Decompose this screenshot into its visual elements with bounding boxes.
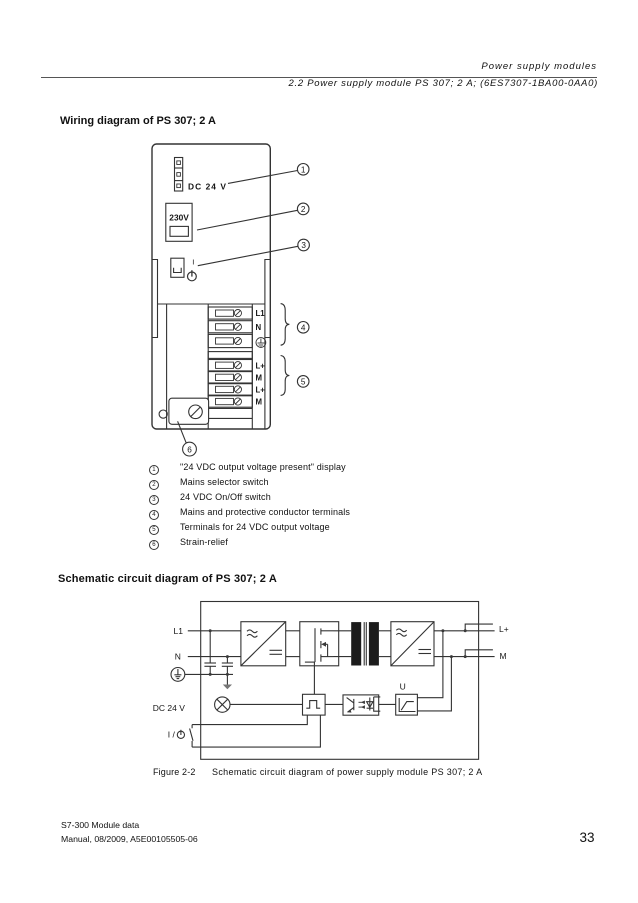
PE label symbol	[256, 338, 266, 348]
svg-text:L1: L1	[256, 309, 266, 318]
svg-text:L+: L+	[256, 361, 266, 370]
wire lamp to pulse stage	[230, 703, 303, 705]
schematic labels	[153, 624, 509, 739]
terminal L+	[465, 624, 493, 631]
svg-text:U: U	[400, 682, 406, 692]
schematic frame	[201, 602, 479, 760]
pulse stage box	[303, 694, 326, 715]
terminal row M	[208, 372, 252, 383]
svg-text:M: M	[500, 651, 507, 661]
callout circles	[183, 164, 310, 457]
wire PE	[185, 673, 233, 675]
svg-text:L+: L+	[256, 386, 266, 395]
svg-text:5: 5	[301, 377, 306, 386]
svg-text:N: N	[256, 323, 262, 332]
terminal row N	[208, 321, 252, 333]
svg-text:I: I	[192, 257, 194, 266]
optocoupler box	[343, 695, 380, 715]
section heading 2	[58, 573, 277, 585]
svg-text:230V: 230V	[169, 212, 189, 222]
empty separator row	[208, 352, 252, 359]
svg-text:M: M	[256, 373, 263, 382]
svg-text:L+: L+	[499, 624, 509, 634]
wire M output	[434, 656, 495, 658]
footer	[61, 820, 139, 830]
legend	[149, 460, 350, 550]
output rectifier U2	[391, 622, 434, 666]
wire L1 input	[188, 630, 241, 632]
module body outline	[152, 144, 270, 429]
svg-text:4: 4	[301, 323, 306, 332]
svg-text:M: M	[256, 398, 263, 407]
terminal row L1	[208, 307, 252, 319]
on/off switch box	[171, 258, 184, 277]
power glyph in I/O label	[177, 730, 184, 739]
terminal block bottom band	[208, 407, 252, 409]
wire optocoupler to U monitor	[379, 703, 396, 705]
svg-text:DC 24 V: DC 24 V	[153, 703, 185, 713]
brace 4	[281, 304, 290, 346]
header line 2	[289, 78, 598, 89]
page number	[579, 830, 594, 845]
svg-text:DC 24 V: DC 24 V	[188, 181, 227, 191]
feedback wire from M	[417, 657, 451, 711]
lamp DC24V	[215, 697, 230, 712]
schematic circuit diagram figure 2-2	[145, 595, 520, 765]
wires transformer to U2	[379, 630, 391, 632]
switch blade	[190, 729, 193, 741]
wire L+ output	[434, 630, 495, 632]
wiring diagram of PS 307	[140, 135, 325, 465]
brace 5	[281, 356, 290, 396]
transformer T1	[351, 622, 379, 665]
label column edge	[264, 338, 266, 429]
junction dots output	[441, 629, 466, 658]
capacitor C2	[222, 657, 233, 685]
figure caption	[153, 767, 196, 777]
svg-text:1: 1	[301, 165, 306, 174]
header line 1	[481, 61, 597, 72]
terminal row PE	[208, 334, 252, 347]
capacitor C1	[204, 631, 216, 675]
selector slot	[170, 226, 188, 236]
front panel divider	[158, 303, 265, 305]
right rail notch	[265, 260, 270, 338]
wire pulse to optocoupler	[325, 703, 343, 705]
wire N input	[188, 656, 241, 658]
svg-text:6: 6	[187, 445, 192, 454]
switch slot	[174, 268, 182, 273]
callout line 1	[228, 171, 298, 184]
voltage monitor box U	[396, 694, 418, 715]
power symbol	[188, 272, 197, 281]
terminal row L+ 2	[208, 384, 252, 395]
svg-text:I /: I /	[168, 729, 176, 739]
chassis ground arrow	[223, 685, 232, 690]
terminal labels	[256, 309, 266, 406]
callout line 3	[198, 246, 298, 265]
terminal row M 2	[208, 396, 252, 407]
LED strip	[175, 158, 183, 192]
feedback wire from L+	[417, 631, 443, 698]
svg-text:L1: L1	[174, 626, 184, 636]
terminal M	[465, 650, 493, 657]
svg-text:2: 2	[301, 205, 306, 214]
svg-text:N: N	[175, 652, 181, 662]
lower front panel left edge	[166, 304, 168, 429]
svg-text:3: 3	[301, 241, 306, 250]
rectifier U1	[241, 622, 286, 666]
ground symbol	[171, 668, 185, 682]
on/off switch wires	[192, 715, 307, 728]
header rule	[41, 77, 597, 78]
strain relief box	[169, 398, 209, 424]
bottom-left hole	[159, 410, 167, 418]
wires Q1 to transformer	[334, 630, 352, 632]
terminal row L+	[208, 360, 252, 371]
callout line 2	[197, 210, 298, 230]
strain relief screw	[189, 405, 203, 419]
section heading 1	[60, 115, 216, 127]
junction dots input	[209, 629, 229, 676]
callout line 6	[178, 421, 187, 443]
left rail notch	[153, 260, 158, 338]
wires U1 to Q1	[286, 630, 300, 632]
switching stage Q1	[300, 622, 339, 666]
mains selector box 230V	[166, 203, 192, 241]
gate lead to pulse stage	[313, 662, 315, 694]
